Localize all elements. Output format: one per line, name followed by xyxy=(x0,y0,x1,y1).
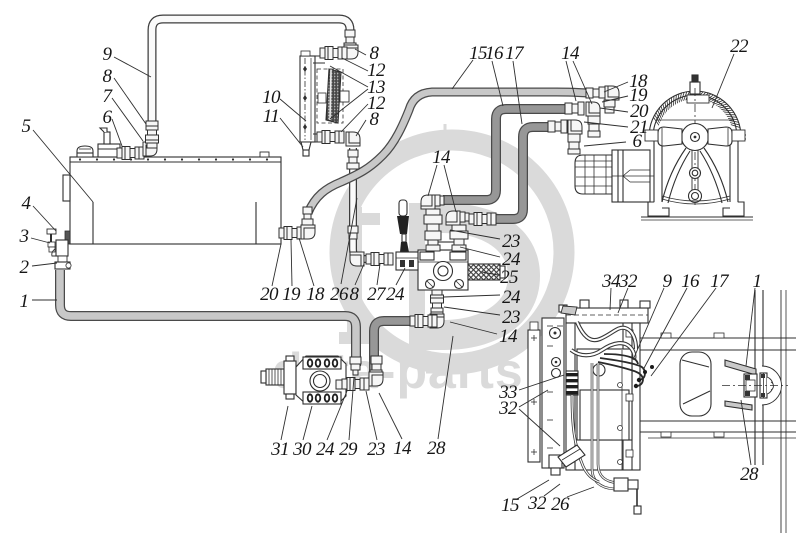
svg-text:6: 6 xyxy=(633,131,643,152)
svg-text:1: 1 xyxy=(20,291,29,312)
svg-text:17: 17 xyxy=(710,271,730,292)
svg-text:8: 8 xyxy=(370,109,380,130)
svg-text:24: 24 xyxy=(386,284,405,305)
svg-text:3: 3 xyxy=(19,226,29,247)
svg-text:18: 18 xyxy=(306,284,325,305)
svg-text:32: 32 xyxy=(527,493,547,514)
svg-text:22: 22 xyxy=(730,36,749,57)
svg-text:17: 17 xyxy=(505,43,525,64)
svg-text:23: 23 xyxy=(367,439,385,460)
svg-text:23: 23 xyxy=(502,307,520,328)
svg-text:30: 30 xyxy=(292,439,312,460)
svg-text:31: 31 xyxy=(270,439,289,460)
svg-text:24: 24 xyxy=(316,439,335,460)
svg-text:14: 14 xyxy=(393,438,412,459)
svg-text:32: 32 xyxy=(498,398,518,419)
svg-text:19: 19 xyxy=(282,284,301,305)
svg-text:34: 34 xyxy=(601,271,621,292)
svg-text:28: 28 xyxy=(740,464,759,485)
svg-text:16: 16 xyxy=(681,271,700,292)
svg-text:14: 14 xyxy=(499,326,518,347)
svg-text:28: 28 xyxy=(427,438,446,459)
svg-text:26: 26 xyxy=(551,494,570,515)
svg-text:2: 2 xyxy=(20,257,30,278)
svg-text:11: 11 xyxy=(263,106,279,127)
svg-text:9: 9 xyxy=(663,271,673,292)
svg-text:20: 20 xyxy=(260,284,279,305)
svg-text:27: 27 xyxy=(367,284,387,305)
svg-text:26: 26 xyxy=(330,284,349,305)
svg-text:6: 6 xyxy=(103,107,113,128)
svg-text:10: 10 xyxy=(262,87,281,108)
svg-text:8: 8 xyxy=(350,284,360,305)
svg-text:32: 32 xyxy=(618,271,638,292)
svg-text:29: 29 xyxy=(339,439,358,460)
svg-text:9: 9 xyxy=(103,44,113,65)
svg-text:24: 24 xyxy=(502,287,521,308)
svg-text:15: 15 xyxy=(501,495,519,516)
svg-text:5: 5 xyxy=(22,116,31,137)
svg-text:16: 16 xyxy=(485,43,504,64)
svg-text:25: 25 xyxy=(500,267,518,288)
svg-text:8: 8 xyxy=(103,66,113,87)
svg-text:1: 1 xyxy=(753,271,762,292)
svg-text:14: 14 xyxy=(561,43,580,64)
svg-text:4: 4 xyxy=(22,193,32,214)
svg-text:14: 14 xyxy=(432,147,451,168)
